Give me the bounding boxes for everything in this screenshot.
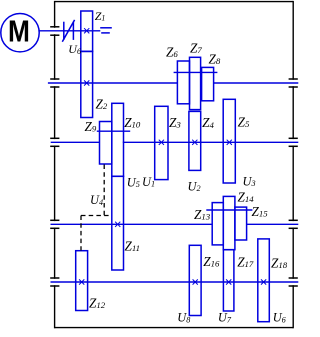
bearing shaft IV right <box>289 220 298 228</box>
shaft I end stop symbol <box>100 28 112 33</box>
fixed joint x of Z4 <box>192 140 197 145</box>
housing frame bottom wall <box>55 327 294 329</box>
fixed joint x of Z12 <box>79 279 84 284</box>
shaft III left segment <box>51 141 100 143</box>
shaft IV right segment <box>247 223 299 225</box>
gear Z1 <box>81 11 93 51</box>
gear Z17 <box>223 250 234 311</box>
shaft III right segment <box>123 141 298 143</box>
gear Z16 <box>189 245 201 315</box>
bearing shaft I left <box>50 27 59 35</box>
bearing shaft IV left <box>50 220 59 228</box>
fixed joint x of Z18 <box>261 279 266 284</box>
fixed joint x of Z5 <box>227 140 232 145</box>
gear Z8 <box>202 67 214 100</box>
housing frame right wall (gaps at shaft crossings) <box>292 1 294 328</box>
bearing shaft V left <box>50 278 59 286</box>
gear Z9 <box>100 122 112 165</box>
gear Z6 <box>177 61 189 104</box>
shaft II left segment <box>48 82 178 84</box>
gear Z5 <box>223 99 235 183</box>
fixed joint x of Z16 <box>193 279 198 284</box>
gear Z2 <box>81 51 93 117</box>
gear Z15 <box>235 207 247 240</box>
fixed joint x of Z3 <box>159 140 164 145</box>
coupling on shaft I <box>62 20 74 42</box>
gear Z12 <box>76 251 88 311</box>
gear Z11 <box>112 176 124 270</box>
housing frame top wall <box>55 1 294 3</box>
shaft IV left segment <box>51 223 213 225</box>
housing frame left wall (gaps at shaft crossings) <box>54 1 56 328</box>
bearing shaft III left <box>50 138 59 146</box>
shaft II right segment <box>214 82 299 84</box>
fixed joint x of Z1 <box>84 28 89 33</box>
gear Z3 <box>155 106 168 179</box>
centerline of sliding pair Z9-Z10 <box>97 130 130 132</box>
gear Z7 <box>190 57 201 109</box>
shifter linkage dashed line (vertical to Z12) <box>80 216 82 251</box>
motor M circle <box>1 14 39 52</box>
shifter linkage dashed line (vertical from Z9) <box>103 165 105 216</box>
shaft I <box>39 30 101 32</box>
gear Z13 <box>212 203 223 245</box>
shifter linkage dashed line (horizontal) <box>81 215 112 217</box>
gear Z18 <box>258 239 270 322</box>
bearing shaft III right <box>289 138 298 146</box>
bearing shaft II right <box>289 79 298 87</box>
gear Z4 <box>189 111 201 170</box>
bearing shaft II left <box>50 79 59 87</box>
fixed joint x of Z11 <box>115 222 120 227</box>
fixed joint x of Z2 <box>84 80 89 85</box>
bearing shaft V right <box>289 278 298 286</box>
shaft V <box>51 281 299 283</box>
fixed joint x of Z17 <box>226 279 231 284</box>
centerline of sliding block Z6-Z7-Z8 <box>174 71 218 73</box>
centerline of sliding block Z13-Z14-Z15 <box>206 209 252 211</box>
gear Z10 <box>112 103 124 176</box>
gear Z14 <box>223 196 235 249</box>
svg-text:M: M <box>8 15 30 49</box>
